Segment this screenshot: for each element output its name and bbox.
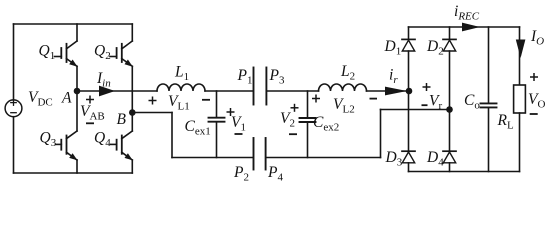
wire: rectifier top rail (409, 26, 520, 28)
wire: corner down to tank bottom rail (171, 113, 173, 158)
wire: lower AC line to rectifier right leg (381, 109, 450, 111)
wire: riser up to Vr node line (380, 110, 382, 158)
wire: leg2 collector top (131, 24, 133, 41)
node A (74, 88, 81, 95)
svg-text:V1: V1 (231, 114, 246, 134)
transistor Q3 (56, 131, 78, 160)
wire: L1 to plate P1 (205, 90, 253, 92)
svg-text:iREC: iREC (454, 3, 480, 23)
capacitor Co (481, 27, 497, 172)
node B (129, 109, 136, 116)
transistor Q4 (111, 131, 133, 160)
wire: bridge top rail (14, 23, 133, 25)
node: rectifier left AC input (406, 88, 413, 95)
svg-text:VL2: VL2 (333, 96, 355, 116)
svg-text:D1: D1 (384, 38, 402, 58)
svg-text:V2: V2 (280, 110, 295, 130)
transistor Q1 (55, 41, 78, 67)
wire: leg2 between Q2 and Q4 (node B) (131, 66, 133, 131)
svg-text:Iin: Iin (96, 70, 111, 90)
wire: left rail above source (13, 24, 15, 100)
wire: leg1 collector top (76, 24, 78, 41)
wire: plate P4 to riser (266, 157, 380, 159)
svg-text:A: A (61, 90, 72, 107)
node: rectifier right AC input (446, 106, 453, 113)
label +Vr- (422, 83, 431, 105)
wire: bridge bottom rail (14, 172, 133, 174)
svg-text:P2: P2 (233, 164, 249, 184)
svg-text:P1: P1 (237, 67, 253, 87)
current arrow Iin (99, 86, 115, 97)
capacitor Cex1 (209, 91, 225, 158)
wire: right leg below RL (519, 113, 521, 172)
transistor Q2 (110, 41, 133, 67)
svg-text:D3: D3 (385, 149, 403, 169)
wire: node B to corner (132, 112, 172, 114)
wire: node A to L1 (77, 90, 157, 92)
svg-text:Co: Co (464, 92, 480, 112)
svg-text:P3: P3 (269, 67, 285, 87)
diode D2 (443, 27, 456, 151)
wire: leg2 Q4 emitter to bottom rail (131, 160, 133, 173)
svg-text:Cex2: Cex2 (313, 114, 339, 134)
diode D1 (402, 27, 415, 151)
label +V2- (289, 104, 299, 134)
plate P2 (253, 138, 255, 170)
plate P1 (253, 68, 255, 105)
svg-text:D4: D4 (426, 149, 444, 169)
diode D4 (443, 151, 456, 171)
svg-text:B: B (117, 111, 127, 128)
label +VL1- (149, 97, 211, 105)
wire: plate P3 to L2 (267, 90, 318, 92)
voltage source VDC (5, 100, 22, 117)
svg-text:VAB: VAB (80, 103, 105, 123)
svg-text:IO: IO (530, 28, 544, 48)
svg-text:Q2: Q2 (94, 43, 111, 63)
wire: rectifier bottom rail (409, 171, 520, 173)
svg-text:Q3: Q3 (40, 130, 57, 150)
label +VO- (530, 73, 538, 114)
diode D3 (402, 151, 415, 171)
label +VL2- (312, 95, 377, 103)
current arrow iREC (462, 23, 480, 32)
label +V1- (227, 108, 243, 134)
svg-text:VO: VO (528, 91, 545, 111)
svg-text:Cex1: Cex1 (185, 118, 211, 138)
resistor RL (514, 85, 526, 113)
inductor L1 (157, 84, 205, 91)
wire: L2 to rectifier input node (367, 90, 410, 92)
svg-text:L1: L1 (174, 64, 189, 84)
current arrow ir (385, 87, 407, 96)
svg-text:Vr: Vr (429, 93, 442, 113)
svg-text:VDC: VDC (28, 89, 53, 109)
svg-text:ir: ir (389, 67, 398, 87)
svg-text:VL1: VL1 (168, 93, 190, 113)
inductor L2 (319, 84, 367, 91)
plate P3 (265, 68, 267, 105)
svg-text:RL: RL (497, 112, 514, 132)
wire: tank bottom rail left to plate P2 (172, 157, 253, 159)
svg-text:D2: D2 (426, 38, 444, 58)
plate P4 (265, 138, 267, 170)
wire: left rail below source (13, 117, 15, 173)
svg-text:P4: P4 (267, 164, 283, 184)
capacitor Cex2 (300, 91, 316, 158)
wire: right leg above RL (519, 27, 521, 85)
wire: leg1 Q3 emitter to bottom rail (76, 160, 78, 173)
svg-text:Q1: Q1 (39, 43, 56, 63)
label +VAB- (86, 96, 94, 124)
current arrow IO (516, 40, 526, 59)
wire: leg1 between Q1 and Q3 (node A) (76, 66, 78, 131)
svg-text:Q4: Q4 (94, 130, 111, 150)
svg-text:L2: L2 (340, 63, 355, 83)
